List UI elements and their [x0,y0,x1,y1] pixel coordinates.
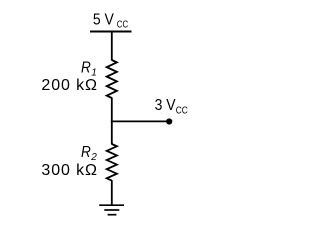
power rail bar (5 Vcc) [90,31,132,33]
ground symbol bar 3 [108,214,117,216]
wire: junction tap to output terminal [111,120,169,122]
svg-text:3 V: 3 V [155,97,176,114]
svg-text:R: R [81,59,91,76]
svg-text:R: R [81,144,91,161]
svg-text:5 V: 5 V [93,11,114,28]
ground symbol bar 2 [104,209,119,211]
wire: rail to R1 top [111,32,113,61]
wire: junction to R2 top [111,121,113,144]
svg-text:300 kΩ: 300 kΩ [41,162,97,179]
node 3 Vcc terminal dot [166,118,172,124]
svg-text:200 kΩ: 200 kΩ [41,77,97,94]
resistor R1 (zigzag) [107,60,117,98]
wire: R1 bottom to junction [111,98,113,123]
svg-text:CC: CC [176,105,188,116]
svg-text:CC: CC [117,20,128,31]
ground symbol bar 1 [99,204,124,206]
resistor R2 (zigzag) [107,144,117,181]
wire: R2 bottom to ground [111,180,113,205]
